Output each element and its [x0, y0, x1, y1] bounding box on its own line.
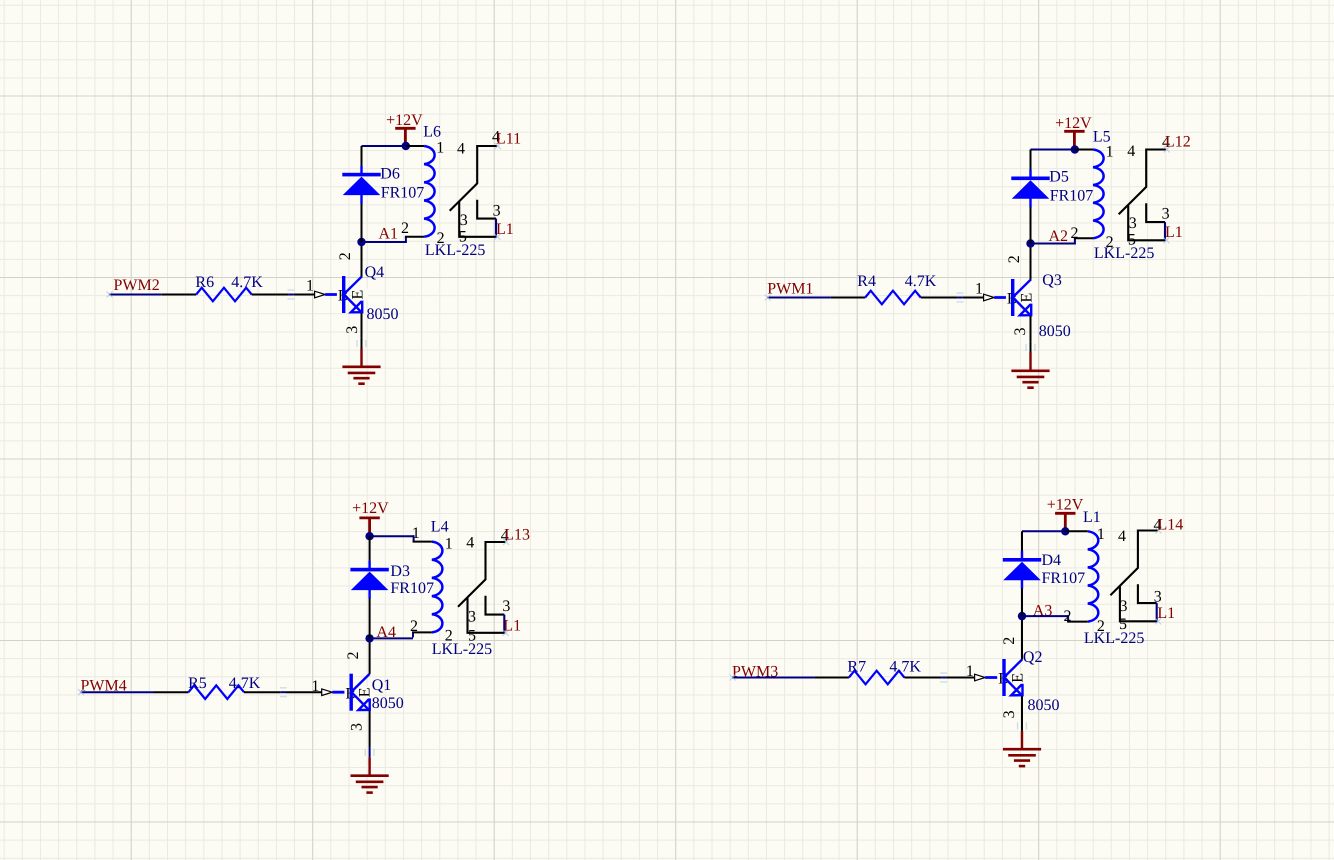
svg-text:E: E	[1019, 293, 1036, 303]
svg-text:FR107: FR107	[381, 185, 425, 202]
transistor Q2	[1002, 659, 1022, 696]
wire to ground	[1030, 342, 1032, 353]
transistor Q4	[342, 276, 362, 313]
base lead	[332, 691, 350, 694]
svg-text:3: 3	[502, 598, 510, 615]
top node junction	[1061, 527, 1069, 535]
svg-text:2: 2	[1006, 255, 1023, 263]
collector wire	[1021, 616, 1023, 659]
resistor R7	[849, 671, 904, 685]
circuit 4: PWM3 relay driver	[730, 497, 1184, 767]
base lead	[994, 296, 1012, 299]
emitter wire	[361, 313, 363, 338]
svg-text:4: 4	[466, 535, 474, 552]
relay coil L1	[1088, 531, 1099, 621]
top node junction	[402, 142, 410, 150]
pin name E	[357, 289, 368, 301]
svg-text:E: E	[1010, 673, 1027, 683]
wire node to coil jog	[370, 637, 413, 639]
svg-text:2: 2	[1064, 608, 1072, 625]
resistor R6 pin 2 lead	[252, 294, 289, 296]
diode D3 cathode lead	[369, 536, 371, 561]
wire top node to diode branch	[1022, 530, 1065, 532]
pin name E	[1026, 292, 1037, 304]
emitter wire	[1021, 696, 1023, 720]
wire node to coil jog	[1022, 615, 1068, 617]
emitter wire	[1030, 316, 1032, 342]
svg-text:Q3: Q3	[1042, 272, 1062, 289]
svg-text:L11: L11	[496, 131, 521, 148]
svg-text:1: 1	[966, 663, 974, 680]
svg-text:2: 2	[1071, 225, 1079, 242]
svg-text:3: 3	[1129, 215, 1137, 232]
coil pin 2 lead	[1074, 237, 1093, 239]
svg-text:PWM2: PWM2	[114, 277, 160, 294]
svg-text:D3: D3	[390, 563, 410, 580]
svg-text:L14: L14	[1158, 517, 1184, 534]
power port +12V	[395, 128, 415, 143]
svg-text:8050: 8050	[1039, 323, 1071, 340]
wire net input segment	[732, 677, 814, 679]
base input arrow	[975, 674, 986, 681]
svg-text:4: 4	[457, 140, 465, 157]
transistor Q2 base pin	[946, 677, 975, 679]
collector wire	[369, 638, 371, 674]
relay coil L5	[1093, 150, 1104, 239]
svg-text:FR107: FR107	[1042, 570, 1086, 587]
ground	[351, 757, 389, 792]
svg-text:+12V: +12V	[1055, 115, 1092, 132]
svg-text:L1: L1	[1083, 509, 1101, 526]
svg-text:Q4: Q4	[365, 264, 385, 281]
svg-text:1: 1	[975, 281, 983, 298]
diode D6	[342, 166, 380, 204]
base lead	[325, 293, 343, 296]
wire top node to diode branch	[362, 145, 406, 147]
coil pin 1 lead	[413, 541, 432, 543]
svg-text:8050: 8050	[1028, 697, 1060, 714]
svg-text:R7: R7	[847, 659, 866, 676]
resistor R5 pin 1 lead	[154, 691, 189, 693]
wire top node to coil	[370, 535, 414, 537]
relay contact LKL-225	[458, 542, 506, 633]
svg-text:Q2: Q2	[1023, 649, 1043, 666]
wire top node to diode branch	[1031, 149, 1075, 151]
relay contact LKL-225	[1110, 531, 1158, 622]
top node junction	[365, 532, 373, 540]
relay coil L4	[432, 542, 443, 633]
wire to ground	[1021, 720, 1023, 731]
diode D4 cathode lead	[1021, 531, 1023, 551]
ground	[1011, 353, 1049, 388]
svg-text:LKL-225: LKL-225	[1094, 245, 1154, 262]
node A3 junction	[1018, 612, 1026, 620]
wire net input segment	[81, 691, 155, 693]
svg-text:2: 2	[345, 652, 362, 660]
svg-text:1: 1	[445, 536, 453, 553]
pin name B	[337, 288, 349, 302]
pin name B	[344, 685, 356, 699]
wire to ground	[369, 747, 371, 758]
wire net input segment	[109, 294, 162, 296]
svg-text:+12V: +12V	[1047, 497, 1084, 514]
svg-text:D6: D6	[380, 166, 400, 183]
node A2 junction	[1026, 239, 1034, 247]
svg-text:LKL-225: LKL-225	[1084, 630, 1144, 647]
resistor R5	[189, 685, 245, 699]
base input arrow	[984, 294, 995, 301]
ground	[1003, 731, 1041, 766]
collector wire	[361, 242, 363, 276]
wire base link	[941, 677, 946, 679]
coil pin 1 lead	[1075, 149, 1093, 151]
svg-text:4.7K: 4.7K	[889, 659, 921, 676]
diode D6 anode lead	[361, 203, 363, 242]
relay contact LKL-225	[450, 146, 498, 237]
diode D6 cathode lead	[361, 146, 363, 166]
svg-text:3: 3	[460, 212, 468, 229]
svg-text:4.7K: 4.7K	[231, 274, 263, 291]
svg-text:1: 1	[412, 525, 420, 542]
transistor Q1 base pin	[286, 691, 322, 693]
svg-text:3: 3	[1001, 710, 1018, 718]
resistor R7 pin 2 lead	[904, 677, 941, 679]
wire node to coil jog	[1031, 243, 1075, 245]
transistor Q1	[350, 674, 370, 711]
diode D5 anode lead	[1030, 207, 1032, 244]
svg-text:R6: R6	[195, 274, 214, 291]
svg-text:8050: 8050	[372, 695, 404, 712]
svg-text:L13: L13	[504, 527, 530, 544]
coil pin 2 lead	[405, 236, 424, 238]
svg-text:+12V: +12V	[352, 500, 389, 517]
resistor R5 pin 2 lead	[244, 691, 281, 693]
circuit 1: PWM2 relay driver	[107, 112, 522, 384]
svg-text:1: 1	[306, 278, 314, 295]
wire to ground	[361, 338, 363, 349]
svg-text:E: E	[350, 290, 367, 300]
svg-text:2: 2	[410, 618, 418, 635]
diode D3	[350, 561, 388, 599]
power port +12V	[1055, 513, 1075, 528]
svg-text:L6: L6	[423, 124, 441, 141]
svg-text:4.7K: 4.7K	[229, 675, 261, 692]
svg-text:3: 3	[1012, 328, 1029, 336]
coil pin 1 lead	[406, 145, 424, 147]
resistor R4	[865, 291, 920, 305]
pin name B	[997, 671, 1009, 685]
relay contact LKL-225	[1119, 150, 1167, 241]
resistor R7 pin 1 lead	[814, 677, 849, 679]
resistor R4 pin 1 lead	[831, 297, 866, 299]
svg-text:L1: L1	[1157, 605, 1175, 622]
wire base link	[281, 691, 286, 693]
svg-text:4: 4	[1118, 528, 1126, 545]
base lead	[985, 676, 1003, 679]
svg-text:D4: D4	[1042, 552, 1062, 569]
svg-text:1: 1	[311, 678, 319, 695]
diode D4 anode lead	[1021, 589, 1023, 617]
resistor R6	[196, 288, 252, 302]
svg-text:+12V: +12V	[386, 112, 423, 129]
svg-text:1: 1	[436, 140, 444, 157]
svg-text:8050: 8050	[367, 306, 399, 323]
svg-text:L1: L1	[503, 618, 521, 635]
circuit 3: PWM4 relay driver	[78, 500, 530, 793]
svg-text:A2: A2	[1049, 228, 1069, 245]
svg-text:LKL-225: LKL-225	[425, 242, 485, 259]
svg-text:PWM1: PWM1	[767, 281, 813, 298]
diode D4	[1003, 551, 1041, 589]
svg-text:A1: A1	[379, 226, 399, 243]
svg-text:L1: L1	[1165, 224, 1183, 241]
pin name E	[1017, 672, 1028, 684]
resistor R6 pin 1 lead	[162, 294, 197, 296]
svg-text:1: 1	[1097, 526, 1105, 543]
svg-text:L4: L4	[431, 519, 449, 536]
svg-text:L1: L1	[496, 221, 514, 238]
circuit 2: PWM1 relay driver	[765, 115, 1191, 388]
diode D3 anode lead	[369, 598, 371, 638]
emitter wire	[369, 711, 371, 747]
svg-text:D5: D5	[1049, 169, 1069, 186]
svg-text:2: 2	[1001, 637, 1018, 645]
diode D5 cathode lead	[1030, 150, 1032, 170]
svg-text:2: 2	[337, 252, 354, 260]
svg-text:LKL-225: LKL-225	[432, 641, 492, 658]
node A1 junction	[357, 238, 365, 246]
svg-text:FR107: FR107	[1050, 188, 1094, 205]
ground	[342, 349, 380, 384]
transistor Q3 base pin	[963, 297, 985, 299]
svg-text:2: 2	[401, 220, 409, 237]
coil pin 1 lead	[1065, 530, 1088, 532]
svg-text:1: 1	[1106, 143, 1114, 160]
svg-text:FR107: FR107	[390, 580, 434, 597]
power port +12V	[359, 518, 379, 533]
top node junction	[1071, 145, 1079, 153]
power port +12V	[1064, 131, 1084, 146]
diode D5	[1011, 169, 1049, 207]
pin name E	[364, 686, 375, 698]
svg-text:4.7K: 4.7K	[905, 273, 937, 290]
base input arrow	[315, 291, 326, 298]
transistor Q3	[1011, 279, 1031, 316]
svg-text:3: 3	[468, 608, 476, 625]
relay coil L6	[424, 146, 435, 237]
wire base link	[288, 294, 293, 296]
svg-text:3: 3	[344, 326, 361, 334]
coil pin 2 lead	[1067, 621, 1088, 623]
base input arrow	[322, 689, 333, 696]
svg-text:Q1: Q1	[372, 677, 392, 694]
svg-text:3: 3	[349, 723, 366, 731]
wire node to coil jog	[362, 241, 406, 243]
pin name B	[1006, 291, 1018, 305]
svg-text:3: 3	[1162, 205, 1170, 222]
svg-text:L12: L12	[1165, 134, 1191, 151]
node A4 junction	[365, 634, 373, 642]
transistor Q4 base pin	[294, 294, 316, 296]
svg-text:4: 4	[1127, 143, 1135, 160]
wire net input segment	[767, 297, 831, 299]
svg-text:3: 3	[493, 202, 501, 219]
svg-text:R4: R4	[857, 273, 876, 290]
svg-text:R5: R5	[188, 675, 207, 692]
resistor R4 pin 2 lead	[921, 297, 958, 299]
coil pin 2 lead	[412, 631, 432, 633]
collector wire	[1030, 244, 1032, 280]
wire base link	[957, 297, 962, 299]
